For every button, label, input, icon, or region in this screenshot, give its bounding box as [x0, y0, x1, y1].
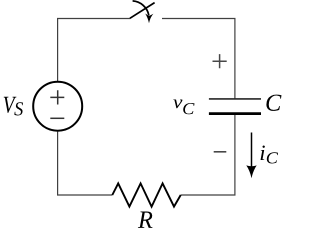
plus sign inside source: [50, 90, 64, 104]
minus sign inside source: [50, 117, 64, 119]
label i_C: [261, 146, 278, 164]
wire: bottom-left horizontal + left vertical below source: [58, 132, 113, 195]
switch closing arc: [133, 1, 149, 15]
label C: [266, 95, 281, 111]
wire: right vertical below capacitor + bottom-right horizontal: [181, 115, 235, 195]
label V_S: [4, 97, 23, 116]
wire: left vertical + top-left horizontal: [58, 19, 131, 82]
current arrow i_C: [251, 133, 253, 170]
minus sign below capacitor: [214, 151, 227, 153]
wire: top-right horizontal + right vertical down to capacitor: [162, 19, 235, 99]
voltage source V_S circle: [33, 82, 82, 131]
capacitor C bottom plate: [209, 112, 261, 115]
capacitor C top plate: [209, 98, 261, 100]
resistor R zigzag: [112, 183, 180, 206]
label R: [138, 211, 153, 227]
label v_C: [173, 99, 194, 114]
switch arrowhead: [145, 14, 153, 24]
switch lever: [130, 3, 155, 19]
plus sign above capacitor: [213, 54, 227, 68]
